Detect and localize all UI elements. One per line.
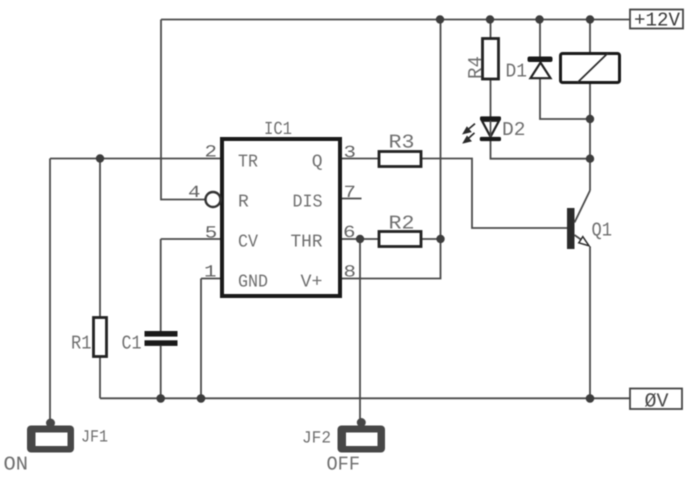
svg-text:2: 2 — [205, 143, 218, 162]
svg-text:D2: D2 — [502, 119, 526, 141]
svg-text:R2: R2 — [389, 213, 415, 235]
svg-text:5: 5 — [205, 224, 218, 243]
svg-text:GND: GND — [238, 273, 268, 293]
svg-text:ØV: ØV — [645, 390, 669, 413]
svg-text:D1: D1 — [506, 61, 528, 83]
svg-text:DIS: DIS — [293, 193, 323, 213]
svg-text:CV: CV — [238, 233, 258, 253]
svg-text:Q1: Q1 — [592, 220, 613, 242]
svg-text:R1: R1 — [71, 333, 92, 355]
svg-text:R: R — [238, 193, 249, 213]
svg-text:JF1: JF1 — [81, 429, 108, 448]
svg-text:4: 4 — [188, 184, 201, 203]
svg-text:C1: C1 — [122, 333, 142, 355]
svg-text:THR: THR — [291, 233, 323, 253]
svg-text:R3: R3 — [389, 132, 415, 154]
svg-text:OFF: OFF — [327, 454, 361, 476]
svg-text:1: 1 — [204, 263, 217, 282]
svg-text:Q: Q — [312, 153, 323, 173]
svg-text:V+: V+ — [301, 273, 323, 293]
svg-text:8: 8 — [344, 264, 357, 283]
svg-text:3: 3 — [344, 144, 357, 163]
svg-text:6: 6 — [343, 224, 356, 243]
svg-text:ON: ON — [4, 454, 29, 476]
svg-text:TR: TR — [238, 153, 258, 173]
svg-text:IC1: IC1 — [264, 119, 292, 140]
svg-text:JF2: JF2 — [302, 430, 331, 449]
svg-text:+12V: +12V — [634, 10, 680, 32]
svg-text:R4: R4 — [465, 56, 487, 79]
svg-text:7: 7 — [344, 184, 357, 203]
